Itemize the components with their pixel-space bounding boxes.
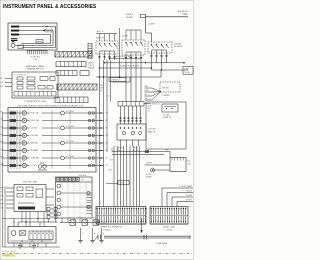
branch wire C: [100, 67, 152, 69]
long vertical wire x119.5: [119, 28, 121, 77]
printed circuit grid table: [56, 177, 93, 218]
module right stubs: [46, 188, 54, 190]
svg-text:TO BODY HARN: TO BODY HARN: [179, 185, 193, 188]
cluster row BRK IND: [3, 142, 10, 144]
grounds center-bottom: [80, 228, 82, 241]
wire with arrow below connector: [141, 218, 143, 230]
wire hot feed drop: [145, 17, 147, 33]
small contact box near key: [18, 45, 24, 48]
cluster row FUEL GA: [3, 112, 10, 114]
svg-text:A WIRED FOR TACH: A WIRED FOR TACH: [116, 55, 133, 58]
svg-text:HOT AT ALL: HOT AT ALL: [178, 10, 188, 13]
legend table row 2: [56, 62, 86, 67]
svg-text:12 GRY: 12 GRY: [163, 114, 170, 116]
svg-text:BLKHD CONN: BLKHD CONN: [163, 227, 175, 229]
verticals into ignition box top: [13, 219, 15, 227]
branch wire A: [110, 57, 142, 59]
hatched connector strip C200: [57, 84, 97, 90]
wires from module down to ignition box: [21, 212, 23, 223]
page background: [0, 0, 194, 260]
svg-text:C2 BLK: C2 BLK: [166, 229, 173, 231]
svg-text:HI BEAM: HI BEAM: [31, 149, 39, 152]
dimmer switch S4 dashed box: [160, 82, 180, 92]
svg-text:M/T: M/T: [80, 218, 83, 220]
connector ladder C101: [87, 43, 89, 59]
svg-text:CHG IND: CHG IND: [31, 135, 39, 137]
S3 output wires: [151, 59, 153, 70]
cluster row TURN IND: [3, 157, 10, 159]
svg-text:/ WASHER SWITCH: / WASHER SWITCH: [26, 68, 44, 71]
svg-text:a: a: [83, 65, 84, 67]
svg-text:YEL: YEL: [145, 98, 148, 100]
svg-text:12 BRN C2: 12 BRN C2: [111, 80, 120, 82]
module left stubs: [6, 187, 14, 189]
svg-text:18: 18: [98, 84, 100, 86]
svg-text:NOT USED: NOT USED: [66, 111, 75, 113]
svg-text:A B C D: A B C D: [97, 30, 104, 33]
svg-text:18 GRN: 18 GRN: [186, 195, 193, 197]
ignition switch assembly: [18, 221, 58, 223]
svg-text:ILL LPS: ILL LPS: [31, 165, 38, 167]
bulkhead connector C1 hatched: [96, 207, 146, 225]
relay box inside: [36, 40, 43, 44]
svg-text:18 BLK: 18 BLK: [186, 190, 192, 192]
wires below ignition box: [13, 243, 15, 247]
svg-text:B+ FEED: B+ FEED: [174, 46, 183, 48]
harness bundle to bottom connector: [113, 146, 115, 207]
svg-text:wiringpdf: wiringpdf: [3, 254, 11, 257]
svg-text:a: a: [70, 65, 71, 67]
svg-text:a: a: [73, 100, 74, 102]
svg-text:T LAMPS: T LAMPS: [162, 94, 170, 97]
small label box C2: [118, 181, 129, 185]
svg-text:18 BR: 18 BR: [120, 183, 125, 185]
svg-text:a: a: [66, 65, 67, 67]
dash-dot separator: [2, 252, 192, 254]
cluster row CHG IND: [3, 135, 10, 137]
svg-text:DIM SW: DIM SW: [162, 88, 169, 90]
svg-text:DOME LP: DOME LP: [163, 117, 172, 119]
module internals: [17, 187, 23, 191]
connector row C202: [55, 97, 88, 103]
component inside box: [162, 104, 178, 112]
svg-text:FUSE 4A: FUSE 4A: [45, 30, 53, 33]
svg-text:TO WIPER MOTOR CONN: TO WIPER MOTOR CONN: [24, 101, 46, 103]
fuse block nested wires: [19, 26, 56, 28]
svg-text:BRK IND: BRK IND: [31, 143, 39, 145]
svg-text:IGN SW: IGN SW: [174, 44, 181, 46]
dimmer fan wires: [145, 87, 153, 89]
connector row C210: [118, 102, 144, 107]
svg-text:FUEL GA: FUEL GA: [31, 112, 39, 115]
svg-text:NOT USED PRINTED CIRCUIT I: NOT USED PRINTED CIRCUIT INSTRUMENT CLUS…: [18, 104, 84, 107]
small switch row: [60, 222, 100, 224]
fuel gauge symbol: [38, 165, 42, 169]
switch S1 headlamp legs: [99, 54, 101, 60]
cluster row OIL IND: [3, 127, 10, 129]
main bus wire y77: [96, 76, 161, 78]
svg-text:RADIO B+: RADIO B+: [148, 130, 156, 133]
watermark highlight: [2, 254, 16, 257]
wire corner above tables: [112, 81, 130, 83]
ignition key symbol: [11, 44, 15, 48]
svg-text:ACC LPS: ACC LPS: [45, 28, 53, 31]
svg-text:FUSED: FUSED: [146, 177, 153, 179]
bulkhead connector C2 hatched: [150, 207, 188, 225]
wire into lighter: [145, 164, 171, 166]
left edge harness wires: [2, 112, 4, 247]
svg-text:easyautodiagn.: easyautodiagn.: [2, 250, 17, 253]
wires to right y151 y154: [112, 151, 170, 153]
svg-text:a: a: [56, 100, 57, 102]
wire hot feed horizontal: [146, 16, 189, 18]
svg-text:NOT USED: NOT USED: [66, 156, 75, 158]
svg-text:a: a: [85, 100, 86, 102]
branch wire B: [105, 62, 185, 64]
legend table row 3: [56, 71, 77, 76]
radio heater control box: [117, 124, 146, 140]
harness verticals mid bundle: [125, 61, 127, 102]
headlamp switch module box: [14, 185, 46, 212]
switch S3 ignition legs: [151, 53, 153, 59]
contact pair: [11, 38, 18, 39]
label box right: [183, 67, 193, 75]
svg-text:a: a: [69, 100, 70, 102]
svg-text:INST LPS: INST LPS: [96, 38, 105, 40]
ignition connector sub-box: [29, 231, 53, 240]
svg-text:TEMP GA: TEMP GA: [31, 119, 40, 122]
cigar lighter component: [170, 158, 186, 172]
right wire stack staircase: [162, 187, 193, 189]
svg-text:a: a: [57, 65, 58, 67]
svg-text:18 GRY: 18 GRY: [146, 163, 153, 165]
svg-text:WINDSHIELD WIPER: WINDSHIELD WIPER: [26, 66, 45, 68]
svg-text:B WIRED FOR GAUGES: B WIRED FOR GAUGES: [120, 64, 140, 67]
svg-text:BL: BL: [1, 78, 3, 80]
radio box legs: [120, 140, 122, 146]
svg-text:a: a: [60, 100, 61, 102]
svg-text:NOT USED: NOT USED: [66, 126, 75, 128]
svg-text:HDLP SW CONN: HDLP SW CONN: [23, 182, 38, 184]
svg-text:C2: C2: [148, 111, 150, 113]
wiper switch input wires: [5, 78, 12, 80]
svg-text:TO IGN: TO IGN: [184, 72, 191, 74]
fuse symbol F8: [141, 14, 146, 17]
connector C100 comb: [27, 49, 48, 51]
svg-text:P LO HI INT W D: P LO HI INT W D: [14, 75, 28, 77]
cluster row HI BEAM: [3, 150, 10, 152]
switch S1 headlamp dashed box: [96, 41, 118, 54]
svg-text:a: a: [64, 100, 65, 102]
wire to right side: [152, 69, 189, 71]
svg-text:4 BLK C1: 4 BLK C1: [152, 104, 160, 106]
svg-text:GAUGE: GAUGE: [88, 66, 95, 69]
wiper switch box: [12, 72, 58, 98]
svg-text:a: a: [81, 100, 82, 102]
wiper switch internal contacts: [17, 77, 23, 80]
bus label box: [109, 78, 126, 82]
svg-text:12 ORN: 12 ORN: [148, 24, 155, 26]
svg-text:a: a: [74, 65, 75, 67]
svg-text:a: a: [79, 65, 80, 67]
svg-text:FUSE 8: FUSE 8: [126, 14, 133, 16]
paired square connectors: [47, 208, 50, 211]
cluster bus verticals: [10, 110, 12, 169]
svg-text:a: a: [61, 65, 62, 67]
fuse block FB1 outline: [8, 23, 57, 50]
svg-text:3 PNK: 3 PNK: [184, 69, 190, 71]
fuse F2 bar: [11, 30, 19, 32]
svg-text:CONN C1 ): CONN C1 ): [103, 229, 113, 231]
scan border frame: [0, 0, 193, 259]
bottom-left bus wire: [3, 246, 61, 248]
svg-text:C2: C2: [142, 158, 144, 160]
svg-text:CLSTR: CLSTR: [122, 36, 129, 38]
antenna cable: [104, 235, 190, 237]
svg-text:20 AMP: 20 AMP: [126, 16, 133, 19]
svg-text:TIMES: TIMES: [182, 14, 189, 16]
junction box on wire: [145, 150, 149, 153]
switch S3 ignition dashed box: [148, 42, 172, 53]
wires into switch S2 from above: [125, 30, 127, 40]
svg-text:INSTRUMENT PANEL & ACCESSORIES: INSTRUMENT PANEL & ACCESSORIES: [3, 4, 97, 10]
hatched connector strip row 1: [55, 52, 92, 58]
svg-text:16 LT BLU: 16 LT BLU: [148, 129, 157, 131]
svg-text:18 WHT: 18 WHT: [186, 199, 192, 201]
svg-text:NOT USED: NOT USED: [66, 141, 75, 143]
svg-text:( WIRES NOT SHOWN ON: ( WIRES NOT SHOWN ON: [100, 227, 123, 229]
instrument cluster box: [8, 108, 96, 173]
switch S2 wiper dashed box: [122, 40, 145, 55]
fuse F1 bar: [11, 26, 19, 28]
cluster row TEMP GA: [3, 120, 10, 122]
wire across above ignition box: [3, 218, 49, 220]
harness verticals left bundle: [99, 60, 101, 207]
wires down from C210: [120, 106, 122, 124]
svg-text:a: a: [77, 100, 78, 102]
cable mid fitting: [143, 235, 145, 240]
wiper switch bottom contact row: [14, 92, 56, 97]
grounds under ignition box: [19, 243, 21, 246]
fuse F3 bar: [11, 34, 19, 36]
svg-text:TURN IND: TURN IND: [31, 158, 40, 160]
svg-text:C100: C100: [33, 59, 37, 61]
cluster row ILL LPS: [3, 165, 10, 167]
module dark label bar: [18, 207, 35, 210]
box courtesy lamp area: [146, 102, 186, 149]
svg-text:OIL IND: OIL IND: [31, 128, 38, 130]
svg-text:TO ANTENNA: TO ANTENNA: [156, 242, 168, 245]
wires into switch S1 from above: [96, 33, 117, 35]
wires from grid table down to switch row: [61, 218, 63, 223]
switch S2 wiper legs: [125, 55, 127, 61]
